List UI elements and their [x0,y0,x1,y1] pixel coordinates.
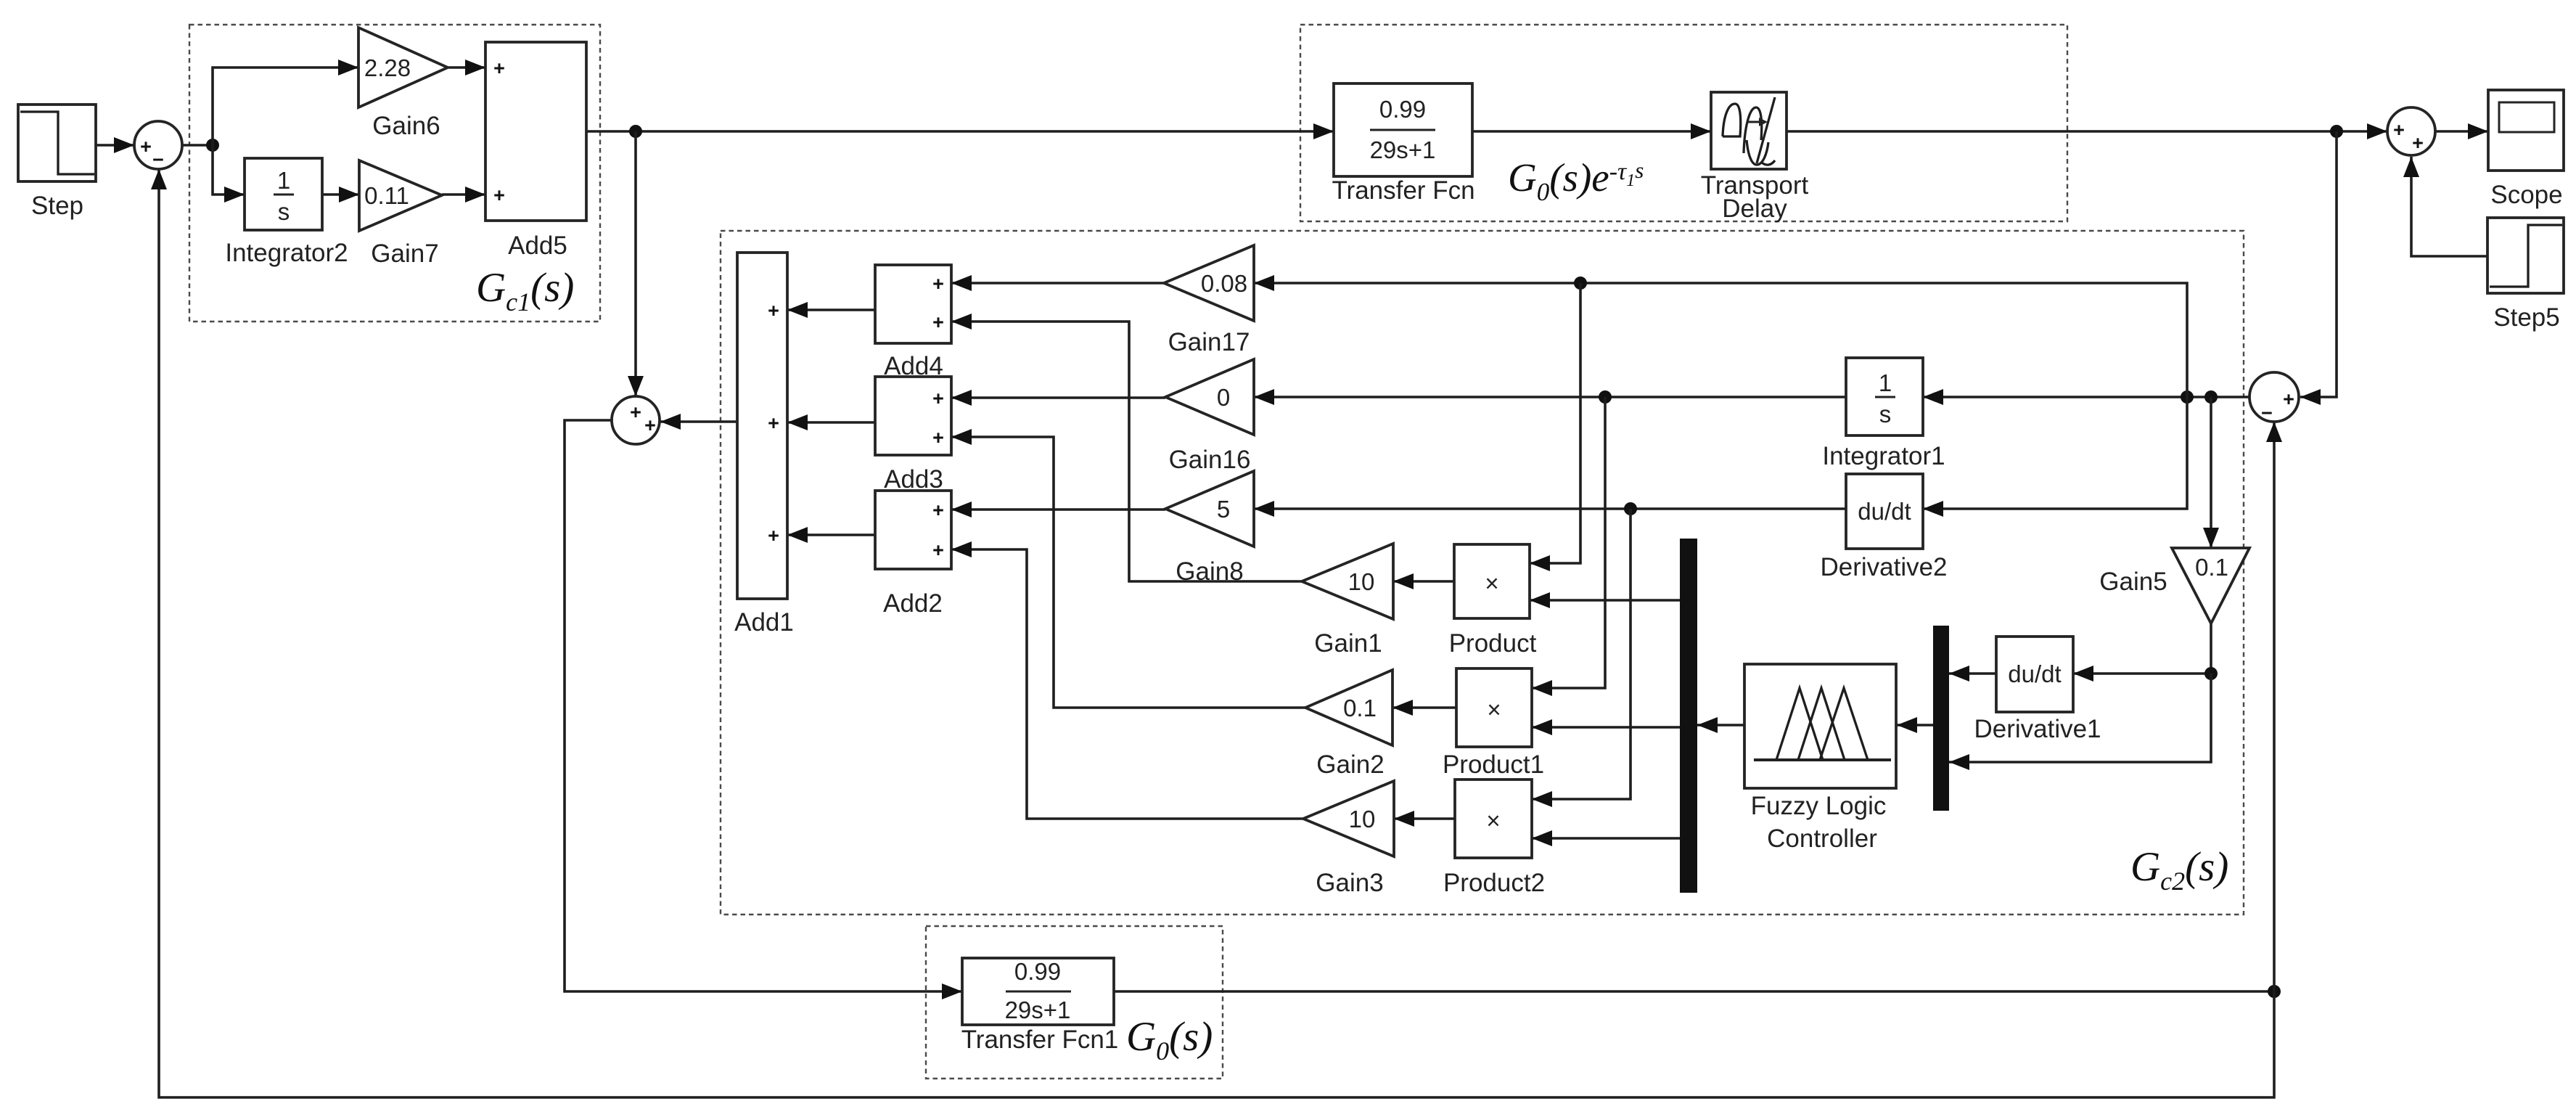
svg-text:+: + [2393,119,2405,141]
svg-text:Product: Product [1449,629,1537,658]
wire sum3 to Scope [2435,130,2488,133]
wire branch up to Gain6 [213,67,358,145]
dashed box Gc1(s) [189,25,600,322]
svg-text:Step: Step [31,192,83,220]
svg-text:0.11: 0.11 [364,182,409,209]
transfer function block Transfer Fcn (0.99/29s+1) [1334,83,1472,176]
wire down to Gain5 [2210,397,2212,548]
node sum1 output junction [206,139,219,152]
svg-text:Fuzzy Logic: Fuzzy Logic [1751,792,1887,820]
node Add5 output junction [629,125,642,138]
wire Product1 to Gain2 [1392,706,1456,709]
adder block Add4 [875,265,951,343]
wire Integrator2 to Gain7 [322,193,359,196]
demux bar [1680,539,1697,893]
wire Gain5 to Derivative1 [2073,623,2211,674]
svg-text:0.99: 0.99 [1014,958,1061,985]
svg-text:+: + [140,136,152,157]
svg-text:Gain8: Gain8 [1176,557,1243,586]
wire demux to Product2 lower input [1532,837,1680,840]
svg-text:Add2: Add2 [883,589,943,618]
wire Add3 to Add1 [787,421,875,424]
integrator block Integrator2 (1/s) [245,158,322,230]
mux bar [1933,626,1949,811]
wire tap to Product1 upper input [1532,397,1605,688]
svg-text:+: + [768,300,779,322]
wire Gain17 to Add4 [951,282,1164,285]
wire Add2 to Add1 [787,533,875,536]
gain block Gain5 (0.1) downward [2172,548,2249,623]
source block Step [18,105,96,181]
derivative block Derivative1 (du/dt) [1996,637,2073,712]
gain block Gain3 (10) [1303,781,1394,856]
svg-text:+: + [2283,388,2294,410]
dashed box Gc2(s) [721,231,2244,915]
svg-text:Controller: Controller [1767,825,1877,853]
node junction below Gain5 [2204,667,2218,680]
svg-text:+: + [493,57,505,79]
sum junction sum4 [2249,372,2299,424]
svg-text:10: 10 [1348,568,1375,595]
svg-text:Step5: Step5 [2493,303,2559,332]
svg-text:Add3: Add3 [884,465,943,494]
wire mux to Fuzzy Logic Controller [1897,724,1933,727]
wire Transport Delay to sum3 [1787,130,2387,133]
wire Transfer Fcn to Transport Delay [1472,130,1711,133]
gain block Gain17 (0.08) [1164,245,1254,321]
svg-text:0.1: 0.1 [1343,695,1377,721]
wire Gain6 to Add5 [448,66,485,69]
product block Product [1454,544,1530,618]
svg-text:−: − [2261,402,2273,424]
svg-text:Gain17: Gain17 [1168,328,1250,356]
wire Gain16 to Add3 [951,396,1165,399]
wire Derivative2 to Gain8 [1254,507,1846,510]
gain block Gain1 (10) [1302,544,1393,619]
wire tap to Product2 upper input [1532,509,1630,799]
wire down and left to mux lower input [1949,674,2211,762]
svg-text:10: 10 [1349,806,1376,832]
svg-text:Scope: Scope [2490,181,2562,209]
scope block Scope [2488,90,2564,171]
svg-text:+: + [493,184,505,206]
svg-text:Integrator1: Integrator1 [1822,442,1945,470]
transport delay block Transport Delay [1711,92,1787,169]
svg-text:×: × [1486,807,1500,834]
wire Derivative1 to mux upper input [1949,672,1996,675]
wire sum4 output to Integrator1 [1923,396,2250,398]
wire up and left to Gain17 [1254,283,2187,397]
wire Gain2 to Add3 lower input [951,437,1305,708]
product block Product2 [1455,780,1532,858]
svg-text:Gain3: Gain3 [1316,869,1383,897]
node Transfer Fcn1 output junction [2268,985,2281,998]
svg-text:0: 0 [1217,384,1230,411]
node junction tap to Product [1574,277,1587,290]
sum junction sum3 [2387,107,2435,155]
svg-text:Add5: Add5 [508,232,567,260]
wire branch down to Integrator2 [213,145,245,195]
wire Gain1 to Add4 lower input [951,322,1302,581]
wire Fuzzy Logic Controller to demux [1697,724,1744,727]
svg-text:+: + [932,539,944,561]
wire bottom feedback to sum1 [159,169,2274,1097]
node junction tap to Product2 [1624,502,1637,515]
svg-text:Product2: Product2 [1443,869,1545,897]
svg-text:×: × [1485,570,1498,597]
wire Gain8 to Add2 [951,508,1165,511]
gain block Gain6 (2.28) [358,28,448,107]
svg-text:29s+1: 29s+1 [1005,997,1071,1023]
wire Gain7 to Add5 [442,193,485,196]
svg-text:5: 5 [1217,496,1230,523]
wire Integrator1 to Gain16 [1254,396,1846,398]
svg-text:0.99: 0.99 [1379,96,1426,123]
svg-text:Integrator2: Integrator2 [225,239,348,267]
adder block Add5 [485,42,586,221]
wire Step to sum1 [96,144,134,147]
svg-text:Transfer Fcn: Transfer Fcn [1332,176,1474,205]
svg-text:Gain1: Gain1 [1314,629,1382,658]
svg-text:1: 1 [1879,369,1892,396]
wire Add5 to Transfer Fcn [586,130,1334,133]
svg-text:Derivative1: Derivative1 [1974,715,2101,743]
gain block Gain7 (0.11) [359,160,442,231]
svg-text:+: + [932,388,944,409]
svg-text:0.1: 0.1 [2195,554,2228,581]
product block Product1 [1456,668,1532,747]
svg-text:s: s [1879,401,1892,427]
adder block Add3 [875,377,951,455]
wire Gain3 to Add2 lower input [951,549,1303,819]
transfer function block Transfer Fcn1 (0.99/29s+1) [962,958,1114,1025]
wire Product to Gain1 [1393,580,1454,583]
svg-text:s: s [278,198,290,225]
wire up to sum4 minus input [2273,422,2276,991]
sum junction sum2 [612,396,660,444]
dashed box G0(s)e^-t1s [1300,25,2067,221]
svg-text:+: + [932,311,944,333]
svg-text:+: + [768,412,779,434]
svg-text:Gain2: Gain2 [1316,750,1384,779]
wire Add4 to Add1 [787,308,875,311]
integrator block Integrator1 (1/s) [1846,358,1923,435]
dashed box Transfer Fcn1 / G0(s) [926,926,1223,1079]
adder block Add1 [737,253,787,599]
wire Step5 to sum3 [2411,157,2487,256]
svg-text:Add1: Add1 [734,608,794,637]
node junction for Gain17 feed [2181,390,2194,404]
svg-text:Gain6: Gain6 [372,112,440,140]
svg-text:du/dt: du/dt [2008,660,2061,687]
svg-text:−: − [152,149,164,171]
svg-text:du/dt: du/dt [1858,498,1911,525]
gain block Gain8 (5) [1165,471,1254,547]
fuzzy logic controller block [1744,664,1896,788]
svg-text:+: + [932,273,944,295]
wire demux to Product1 lower input [1532,726,1680,729]
svg-text:+: + [932,427,944,449]
wire down and left to Derivative2 [1923,397,2187,509]
gain block Gain16 (0) [1165,359,1254,435]
svg-text:Transfer Fcn1: Transfer Fcn1 [961,1026,1119,1054]
svg-text:+: + [644,414,656,436]
svg-text:Gain16: Gain16 [1169,446,1251,474]
wire sum2 to Transfer Fcn1 [565,420,962,991]
svg-text:1: 1 [277,167,290,194]
node junction for Gain5 feed [2204,390,2218,404]
svg-text:+: + [630,401,641,423]
svg-text:Gain7: Gain7 [371,240,438,268]
svg-text:Delay: Delay [1722,195,1787,223]
svg-text:×: × [1487,696,1501,723]
svg-text:0.08: 0.08 [1201,270,1247,297]
svg-text:Add4: Add4 [884,352,943,380]
sum junction sum1 [134,121,182,171]
svg-text:Derivative2: Derivative2 [1820,553,1947,581]
wire Add1 to sum2 [660,420,737,423]
adder block Add2 [875,491,951,569]
svg-text:Product1: Product1 [1443,750,1544,779]
wire Add5 junction down to sum2 [634,131,637,396]
svg-text:G0(s): G0(s) [1126,1014,1213,1065]
wire Product2 to Gain3 [1394,817,1455,820]
derivative block Derivative2 (du/dt) [1846,474,1923,549]
node junction tap to Product1 [1599,390,1612,404]
wire sum1 output [182,144,213,147]
svg-text:+: + [2412,132,2424,154]
gain block Gain2 (0.1) [1305,670,1392,745]
svg-text:2.28: 2.28 [364,54,411,81]
source block Step5 [2487,218,2564,293]
svg-text:Gain5: Gain5 [2099,568,2167,596]
wire demux to Product lower input [1530,599,1680,602]
svg-text:+: + [932,499,944,521]
wire Transfer Fcn1 output [1114,990,2274,993]
wire tap to Product upper input [1530,283,1580,563]
svg-text:29s+1: 29s+1 [1370,136,1436,163]
svg-text:+: + [768,525,779,547]
wire junction down to sum4 [2300,131,2337,397]
node main line junction [2330,125,2343,138]
